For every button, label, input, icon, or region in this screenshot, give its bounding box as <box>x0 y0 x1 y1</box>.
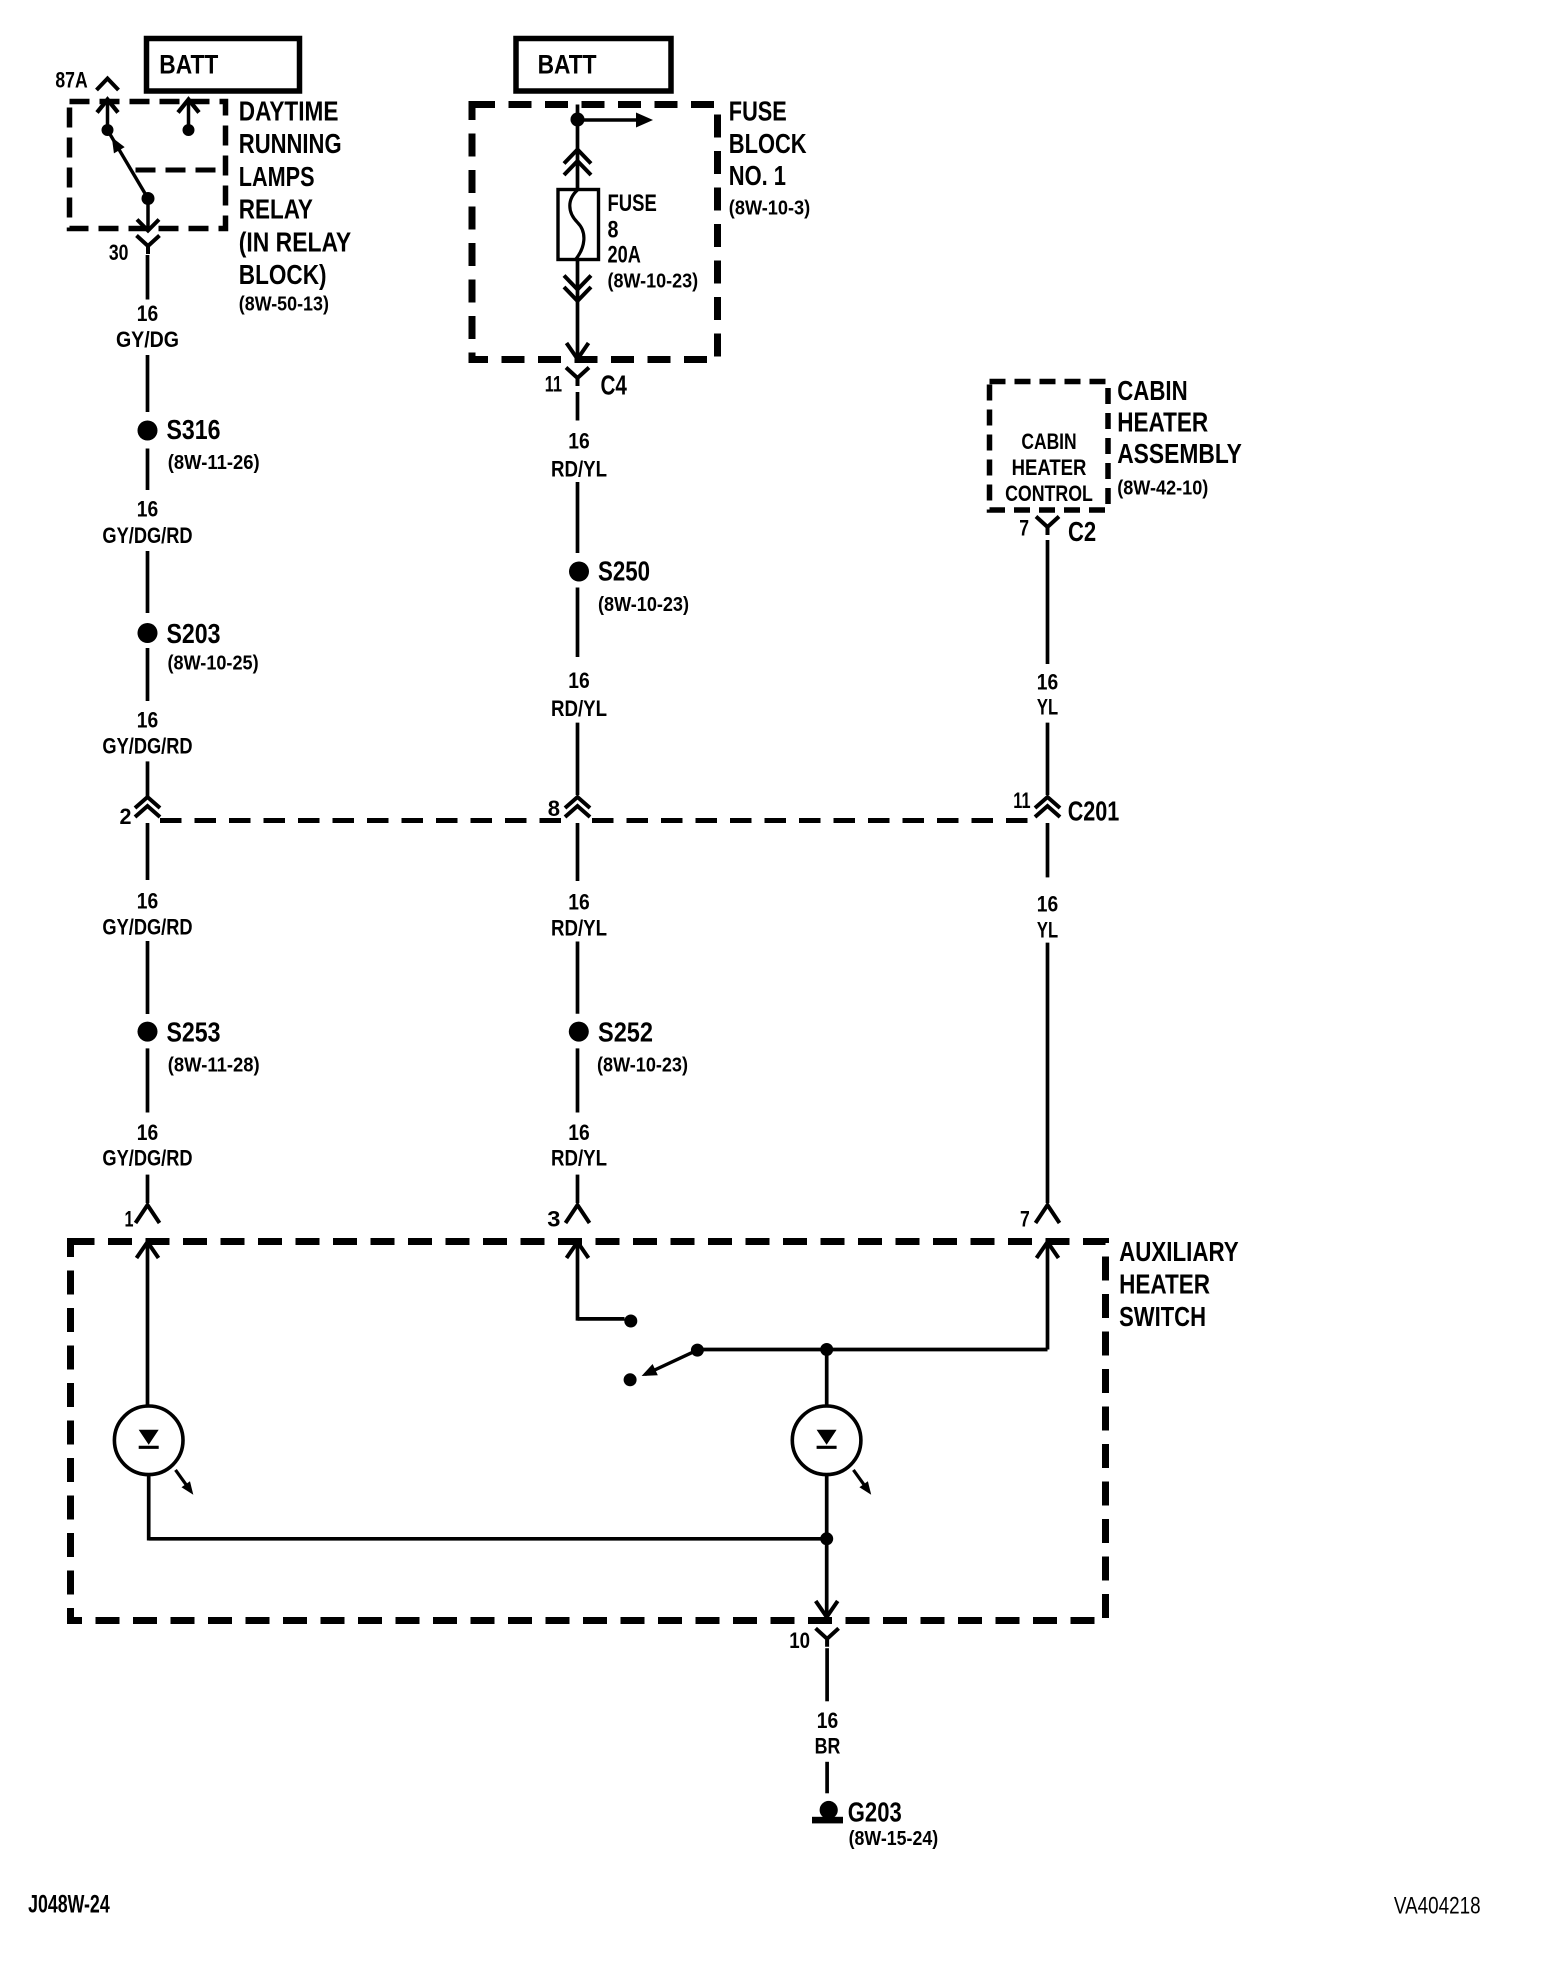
svg-text:16: 16 <box>137 497 158 522</box>
svg-text:(8W-11-26): (8W-11-26) <box>168 452 260 474</box>
svg-text:10: 10 <box>789 1628 810 1653</box>
svg-text:CABIN: CABIN <box>1117 375 1188 406</box>
svg-text:YL: YL <box>1037 695 1058 720</box>
svg-text:VA404218: VA404218 <box>1394 1893 1481 1920</box>
svg-text:8: 8 <box>548 796 560 821</box>
svg-text:16: 16 <box>568 668 589 693</box>
svg-text:16: 16 <box>1037 670 1058 695</box>
svg-text:16: 16 <box>137 889 158 914</box>
svg-text:3: 3 <box>547 1207 560 1232</box>
svg-text:8: 8 <box>608 217 619 244</box>
svg-text:BLOCK): BLOCK) <box>239 259 327 290</box>
svg-text:16: 16 <box>568 429 589 454</box>
svg-text:GY/DG/RD: GY/DG/RD <box>102 733 192 758</box>
svg-text:S316: S316 <box>167 414 221 445</box>
svg-text:(8W-10-23): (8W-10-23) <box>597 1055 688 1077</box>
svg-text:CONTROL: CONTROL <box>1005 481 1093 506</box>
svg-text:RUNNING: RUNNING <box>239 128 342 159</box>
svg-text:(IN RELAY: (IN RELAY <box>239 226 352 257</box>
svg-text:RD/YL: RD/YL <box>551 457 607 482</box>
svg-text:BLOCK: BLOCK <box>729 128 807 159</box>
svg-text:RD/YL: RD/YL <box>551 696 607 721</box>
svg-text:HEATER: HEATER <box>1117 407 1208 438</box>
svg-text:30: 30 <box>109 240 129 265</box>
svg-text:GY/DG: GY/DG <box>116 327 179 352</box>
svg-text:11: 11 <box>545 372 562 397</box>
svg-text:16: 16 <box>1037 892 1058 917</box>
svg-text:GY/DG/RD: GY/DG/RD <box>102 523 192 548</box>
svg-text:(8W-42-10): (8W-42-10) <box>1117 478 1208 500</box>
svg-text:16: 16 <box>137 708 158 733</box>
svg-text:RD/YL: RD/YL <box>551 915 607 940</box>
svg-text:7: 7 <box>1020 1207 1030 1232</box>
svg-text:(8W-10-23): (8W-10-23) <box>608 271 699 293</box>
svg-text:16: 16 <box>137 301 158 326</box>
svg-text:1: 1 <box>125 1207 134 1232</box>
svg-text:G203: G203 <box>848 1797 902 1828</box>
svg-text:C4: C4 <box>601 370 628 401</box>
svg-text:S250: S250 <box>598 556 650 587</box>
svg-text:(8W-10-25): (8W-10-25) <box>168 653 259 675</box>
svg-text:BATT: BATT <box>538 50 597 80</box>
svg-text:RD/YL: RD/YL <box>551 1145 607 1170</box>
svg-text:16: 16 <box>568 890 589 915</box>
svg-text:SWITCH: SWITCH <box>1119 1301 1206 1332</box>
svg-text:(8W-10-3): (8W-10-3) <box>729 198 810 220</box>
svg-text:BR: BR <box>815 1734 841 1759</box>
svg-text:CABIN: CABIN <box>1021 429 1076 454</box>
svg-text:(8W-11-28): (8W-11-28) <box>168 1055 260 1077</box>
svg-text:S253: S253 <box>167 1016 221 1047</box>
svg-text:87A: 87A <box>55 68 87 93</box>
svg-text:11: 11 <box>1013 788 1030 813</box>
svg-text:(8W-15-24): (8W-15-24) <box>849 1828 939 1850</box>
svg-text:S203: S203 <box>167 618 221 649</box>
svg-text:BATT: BATT <box>159 50 218 80</box>
svg-text:GY/DG/RD: GY/DG/RD <box>102 915 192 940</box>
svg-text:S252: S252 <box>598 1016 653 1047</box>
svg-text:16: 16 <box>137 1120 158 1145</box>
svg-text:FUSE: FUSE <box>729 96 787 127</box>
svg-text:2: 2 <box>120 804 132 829</box>
svg-text:RELAY: RELAY <box>239 194 313 225</box>
svg-text:YL: YL <box>1037 918 1058 943</box>
svg-text:LAMPS: LAMPS <box>239 161 315 192</box>
svg-text:NO. 1: NO. 1 <box>729 160 786 191</box>
svg-text:16: 16 <box>817 1708 838 1733</box>
svg-text:HEATER: HEATER <box>1012 455 1087 480</box>
svg-text:7: 7 <box>1019 516 1029 541</box>
svg-text:16: 16 <box>568 1120 589 1145</box>
svg-text:C2: C2 <box>1068 516 1096 547</box>
svg-text:FUSE: FUSE <box>608 190 657 217</box>
svg-text:(8W-50-13): (8W-50-13) <box>239 294 329 316</box>
svg-text:GY/DG/RD: GY/DG/RD <box>102 1145 192 1170</box>
svg-text:AUXILIARY: AUXILIARY <box>1119 1236 1239 1267</box>
svg-text:20A: 20A <box>608 242 641 269</box>
svg-text:J048W-24: J048W-24 <box>28 1891 110 1919</box>
svg-text:(8W-10-23): (8W-10-23) <box>598 594 689 616</box>
svg-text:HEATER: HEATER <box>1119 1269 1210 1300</box>
svg-text:DAYTIME: DAYTIME <box>239 96 339 127</box>
svg-text:C201: C201 <box>1068 795 1120 826</box>
svg-text:ASSEMBLY: ASSEMBLY <box>1117 438 1242 469</box>
